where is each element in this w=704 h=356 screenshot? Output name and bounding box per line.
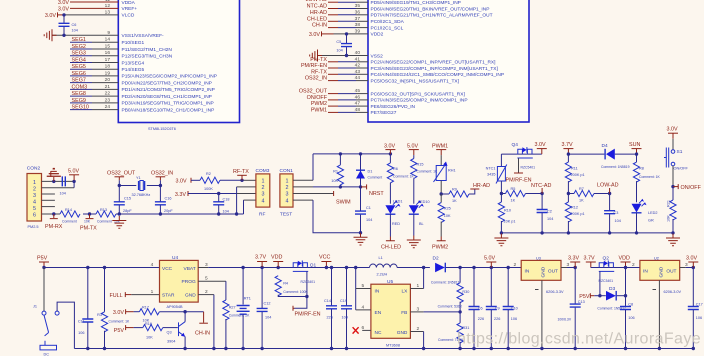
capacitor C6 226 — [469, 268, 485, 351]
wire bottom ground rail — [74, 348, 693, 350]
port PM-RX — [45, 214, 63, 230]
node 3.0V VDD2 — [309, 31, 368, 38]
svg-text:CON2: CON2 — [27, 166, 41, 172]
connector CON2 PM2.5 — [27, 166, 42, 230]
svg-text:2: 2 — [33, 186, 36, 192]
capacitor C3 104 — [604, 194, 621, 233]
svg-text:104: 104 — [60, 192, 66, 196]
wire OS32_IN pin 44 — [305, 76, 368, 82]
resistor R7 1K — [568, 187, 611, 203]
svg-text:PD5/AIN9/SEG19/TM1_CH3/COMP1_I: PD5/AIN9/SEG19/TM1_CH3/COMP1_INP — [371, 0, 461, 6]
svg-text:3.0V: 3.0V — [45, 13, 56, 19]
port PM-TX junction — [80, 212, 97, 231]
wire PM/RF-EN pin 42 — [301, 63, 368, 69]
svg-text:NC: NC — [375, 330, 382, 336]
ground below LED10 — [407, 236, 421, 248]
wire SEG8 — [70, 91, 118, 97]
svg-text:C6: C6 — [478, 306, 483, 310]
port RF-TX — [233, 169, 249, 180]
svg-text:106: 106 — [511, 317, 517, 321]
svg-text:C12: C12 — [264, 302, 271, 306]
wire U5 FB pin3 — [410, 306, 461, 313]
svg-text:R15: R15 — [417, 163, 424, 167]
svg-text:FULL: FULL — [110, 293, 123, 299]
svg-text:20pF: 20pF — [164, 209, 173, 213]
port NRST — [361, 184, 385, 197]
power P5V — [37, 256, 49, 269]
svg-text:RH1: RH1 — [448, 169, 456, 173]
wire U4 VBAT pin3 — [198, 262, 321, 269]
svg-text:PD2/AIN20/SEG8/TM1_CH1/COMP1_I: PD2/AIN20/SEG8/TM1_CH1/COMP1_INP — [122, 94, 212, 100]
svg-text:RZC5401: RZC5401 — [521, 165, 536, 169]
svg-text:GND: GND — [659, 266, 665, 277]
svg-text:PD1/AIN21/COM3/TM5_TRIG/COMP2_: PD1/AIN21/COM3/TM5_TRIG/COMP2_INP — [122, 87, 215, 93]
connector CON1 TEST — [280, 168, 294, 218]
svg-text:R17: R17 — [142, 306, 149, 310]
resistor R16 10K — [143, 322, 178, 340]
wire VCC rail — [308, 266, 370, 269]
svg-text:R2: R2 — [206, 172, 211, 176]
svg-text:AP9054B: AP9054B — [167, 305, 184, 309]
svg-text:200K p1: 200K p1 — [571, 173, 585, 177]
svg-text:4: 4 — [33, 199, 36, 205]
diode D4 1N5819 — [568, 143, 636, 169]
chip U5 MT3608 — [371, 279, 411, 348]
thermistor NTC1 3435 — [486, 154, 507, 195]
wire U3 GND stub — [535, 280, 564, 350]
wire CON1 pin1 up to rail — [293, 154, 313, 180]
svg-text:4: 4 — [262, 198, 265, 204]
svg-text:ON/OFF: ON/OFF — [307, 95, 328, 101]
svg-text:PC2/AIN6/SEG22/COMP1_INP/VREF_: PC2/AIN6/SEG22/COMP1_INP/VREF_OUT[USART1… — [371, 60, 496, 66]
svg-text:3: 3 — [205, 262, 208, 268]
transistor Q1 — [293, 261, 317, 285]
svg-text:3: 3 — [567, 262, 570, 268]
capacitor C1 104 — [355, 187, 372, 233]
svg-text:5: 5 — [33, 206, 36, 212]
svg-text:NTC-AD: NTC-AD — [531, 183, 551, 189]
svg-text:RF: RF — [259, 212, 265, 218]
svg-text:R27: R27 — [229, 306, 236, 310]
svg-text:3.0V: 3.0V — [176, 178, 187, 184]
svg-text:D1: D1 — [368, 170, 373, 174]
LED LED10 BL — [409, 200, 430, 236]
svg-text:Comment: Comment — [97, 220, 112, 224]
svg-text:https://blog.csdn.net/AuroraFa: https://blog.csdn.net/AuroraFaye — [457, 331, 701, 348]
capacitor C5 104 on VDD2 — [336, 34, 352, 56]
capacitor C? 104 on CON2 pin1 — [60, 176, 66, 195]
resistor R13 10K — [96, 208, 121, 224]
svg-text:C1: C1 — [366, 206, 371, 210]
svg-text:Q3: Q3 — [167, 331, 172, 335]
wire COM3 pin2 to ground bus — [237, 187, 256, 214]
port OS32_IN — [151, 171, 173, 181]
svg-text:1K: 1K — [452, 199, 457, 203]
port CH-LED — [381, 237, 401, 251]
svg-text:S1: S1 — [677, 149, 683, 155]
svg-text:PC7/AIN3/SEG25/COMP2_INM/COMP1: PC7/AIN3/SEG25/COMP2_INM/COMP1_INP — [371, 98, 468, 104]
svg-text:VBAT: VBAT — [184, 266, 196, 272]
wire NTC-AD pin 35 — [307, 4, 368, 10]
svg-text:32.768KHz: 32.768KHz — [132, 193, 151, 197]
watermark text — [457, 331, 701, 348]
svg-text:L1: L1 — [379, 256, 383, 260]
wire SEG3 — [70, 51, 118, 57]
svg-text:PD7/AIN7/SEG21/TM1_CH1N/RTC_AL: PD7/AIN7/SEG21/TM1_CH1N/RTC_ALARM/VREF_O… — [371, 13, 493, 19]
battery RT1 — [237, 268, 251, 351]
svg-text:P12/SEG3/TIM1_CH3N: P12/SEG3/TIM1_CH3N — [122, 54, 173, 60]
svg-text:10K: 10K — [667, 215, 671, 222]
wire top rail left — [44, 266, 160, 269]
diode D1 — [356, 154, 382, 187]
wire U5 LX pin1 — [410, 268, 423, 290]
svg-text:LOW-AD: LOW-AD — [597, 183, 619, 189]
svg-text:104: 104 — [72, 29, 78, 33]
svg-text:2: 2 — [514, 262, 517, 268]
svg-text:SWIM: SWIM — [336, 200, 351, 206]
svg-text:104: 104 — [223, 210, 229, 214]
svg-text:106: 106 — [628, 316, 634, 320]
wire SEG1 — [70, 37, 118, 43]
svg-text:226: 226 — [494, 317, 500, 321]
svg-text:STAR: STAR — [162, 293, 175, 299]
power 3.7V battery right — [584, 256, 596, 268]
capacitor C14 226 — [324, 268, 337, 351]
svg-text:STM8L152C6T6: STM8L152C6T6 — [148, 127, 176, 131]
wire CON2 pin6 — [42, 212, 61, 215]
svg-text:Comment: 536K: Comment: 536K — [438, 304, 463, 308]
port FULL — [110, 292, 160, 299]
wire RF-TX pin 43 — [311, 69, 368, 75]
wire CH-LED pin 37 — [307, 16, 368, 22]
power PWM1 port — [432, 143, 448, 155]
svg-text:R4: R4 — [283, 282, 288, 286]
svg-text:3435: 3435 — [487, 173, 495, 177]
svg-text:3.0V: 3.0V — [535, 142, 546, 148]
svg-text:104: 104 — [366, 218, 372, 222]
capacitor C8 106 — [620, 268, 635, 351]
svg-text:5: 5 — [362, 283, 365, 289]
svg-text:CH-LED: CH-LED — [381, 244, 401, 250]
svg-text:R30: R30 — [462, 290, 469, 294]
svg-text:R14: R14 — [65, 208, 72, 212]
chip U2 6206-3.0V — [640, 256, 680, 280]
wire CON2 pin2 — [42, 181, 75, 187]
svg-text:PC3/AIN5/SEG23/COMP1_INP/COMP2: PC3/AIN5/SEG23/COMP1_INP/COMP2_INM[USART… — [371, 66, 498, 72]
resistor R21 10K — [667, 187, 677, 233]
wire 5V rail — [472, 266, 521, 269]
svg-text:OS32_IN: OS32_IN — [305, 76, 327, 82]
node 3.0V to R17 — [113, 309, 139, 316]
capacitor C6 104 — [59, 15, 78, 35]
svg-text:3.7V: 3.7V — [584, 256, 595, 262]
resistor RH1 (boxed) — [434, 155, 456, 196]
svg-text:PC0/I2C1_SDA: PC0/I2C1_SDA — [371, 19, 405, 25]
resistor R12 200K p1 — [565, 194, 584, 233]
svg-text:GND: GND — [541, 266, 547, 277]
ground on osc bus — [112, 216, 126, 228]
wire ON/OFF pin 46 — [307, 95, 368, 101]
ground at VSS1 pin 9 — [44, 29, 118, 41]
svg-text:P13/SEG4: P13/SEG4 — [122, 60, 145, 66]
ground below C1 — [354, 233, 368, 245]
pin names U1 right part — [371, 0, 505, 116]
svg-text:10K: 10K — [146, 336, 153, 340]
power 5.0V over R15 — [407, 143, 419, 155]
svg-text:VDDA: VDDA — [122, 0, 136, 6]
capacitor C12 104 — [257, 268, 272, 351]
svg-text:VDD2: VDD2 — [371, 32, 384, 38]
svg-text:2: 2 — [286, 185, 289, 191]
svg-text:5.0V: 5.0V — [68, 169, 79, 175]
svg-text:5.0V: 5.0V — [484, 256, 495, 262]
svg-text:1: 1 — [33, 180, 36, 186]
svg-text:3.0V: 3.0V — [667, 127, 678, 133]
resistor R15 — [411, 155, 438, 204]
svg-text:106: 106 — [78, 331, 84, 335]
power 3.0V over S1 — [667, 127, 679, 150]
svg-text:NTC1: NTC1 — [486, 167, 496, 171]
svg-text:PD3/AIN19/SEG9/TM1_TRIG/COMP1_: PD3/AIN19/SEG9/TM1_TRIG/COMP1_INP — [122, 101, 214, 107]
svg-text:LED2: LED2 — [648, 211, 658, 215]
svg-text:2.2UH: 2.2UH — [377, 273, 388, 277]
wire SEG10 — [70, 105, 118, 111]
svg-text:PWM2: PWM2 — [432, 244, 448, 250]
svg-text:CON1: CON1 — [280, 168, 294, 174]
svg-text:BL: BL — [419, 222, 424, 226]
svg-text:PD0/AIN22/SEG7/TM3_CH2/COMP2_I: PD0/AIN22/SEG7/TM3_CH2/COMP2_INP — [122, 80, 212, 86]
svg-text:OS32_OUT: OS32_OUT — [107, 171, 136, 177]
wire SEG6 — [70, 71, 118, 77]
svg-text:OUT: OUT — [548, 268, 558, 274]
svg-text:U2: U2 — [654, 256, 659, 260]
port SWIM — [293, 191, 351, 206]
svg-text:C13: C13 — [578, 300, 585, 304]
svg-text:3: 3 — [33, 193, 36, 199]
svg-text:D4: D4 — [602, 143, 608, 149]
port PWM2 — [432, 237, 448, 251]
svg-text:RZC3401: RZC3401 — [301, 280, 316, 284]
svg-text:U3: U3 — [536, 256, 541, 260]
svg-text:RED: RED — [392, 222, 400, 226]
svg-text:DC: DC — [44, 352, 50, 356]
pin names U1 left part — [122, 0, 217, 113]
capacitor C19 104 — [340, 268, 352, 351]
svg-text:104: 104 — [547, 217, 553, 221]
svg-text:R3: R3 — [97, 313, 102, 317]
svg-text:4: 4 — [362, 304, 365, 310]
switch S1 ON/OFF — [664, 148, 689, 189]
svg-text:10K: 10K — [331, 179, 338, 183]
inductor L1 2.2UH — [370, 256, 398, 277]
svg-text:J1: J1 — [33, 305, 37, 309]
power 3.7V sun — [562, 142, 574, 156]
power 3.0V over R6 — [384, 143, 395, 155]
svg-text:200K p1: 200K p1 — [571, 212, 585, 216]
wire L1 to D2 — [397, 266, 430, 269]
svg-text:CH-IN: CH-IN — [195, 331, 210, 337]
wire Q2 gate to P5V net — [599, 271, 601, 295]
svg-text:ON/OFF: ON/OFF — [674, 167, 689, 171]
svg-text:CH-LED: CH-LED — [307, 16, 327, 22]
svg-text:R16: R16 — [145, 322, 152, 326]
svg-text:VLCD: VLCD — [122, 13, 135, 19]
svg-text:Comment: 100K: Comment: 100K — [283, 290, 308, 294]
wire CON2 pin3 stub — [42, 193, 55, 195]
resistor R27 2K — [223, 300, 250, 350]
svg-text:C2: C2 — [547, 210, 552, 214]
svg-text:C16: C16 — [165, 197, 172, 201]
svg-text:VDD: VDD — [619, 256, 630, 262]
svg-text:5.0V: 5.0V — [407, 143, 418, 149]
svg-text:VCC: VCC — [162, 266, 173, 272]
port CH-IN — [195, 312, 210, 337]
svg-text:6: 6 — [33, 212, 36, 218]
svg-text:10K: 10K — [84, 220, 91, 224]
svg-text:3: 3 — [417, 306, 420, 312]
svg-text:104: 104 — [265, 316, 271, 320]
power 3.0V at Q4 — [535, 142, 547, 154]
node 3.0V VDDA wire — [58, 0, 118, 6]
connector COM3 RF — [256, 168, 270, 218]
pin numbers U1 — [105, 0, 111, 110]
crystal Y1 32.768KHz — [119, 176, 160, 197]
svg-text:LED1: LED1 — [393, 200, 403, 204]
wire SEG5 — [70, 64, 118, 70]
svg-text:Comment: 2K: Comment: 2K — [229, 314, 250, 318]
svg-text:C6: C6 — [72, 23, 77, 27]
diode D3 1N5817 — [597, 286, 627, 310]
capacitor C17 106 — [688, 268, 703, 351]
svg-text:3.0V: 3.0V — [686, 256, 697, 262]
svg-text:10K p1: 10K p1 — [504, 220, 516, 224]
transistor Q3 3904 — [167, 312, 187, 350]
wire SEG4 — [70, 58, 118, 64]
wire SEG9 — [70, 98, 118, 104]
svg-text:Comment: 1K: Comment: 1K — [109, 319, 130, 323]
svg-text:PD6/AIN8/SEG20/TM1_BKIN/VREF_O: PD6/AIN8/SEG20/TM1_BKIN/VREF_OUT/COMP1_I… — [371, 6, 490, 12]
svg-text:R1: R1 — [333, 169, 338, 173]
port P5V to D3 — [579, 293, 606, 300]
wire NTC ground rail — [500, 231, 675, 234]
svg-text:PB0/AIN18/SEG10/TM2_CH1/COMP1_: PB0/AIN18/SEG10/TM2_CH1/COMP1_INP — [122, 107, 215, 113]
svg-text:NRST: NRST — [369, 191, 384, 197]
node 3.0V VREF+ wire — [58, 6, 118, 12]
svg-text:PM2.5: PM2.5 — [28, 225, 39, 229]
wire PWM1 pin 48 — [311, 107, 368, 113]
resistor R17 10K — [139, 306, 203, 323]
resistor R1 10K — [331, 154, 343, 187]
svg-text:C5: C5 — [336, 40, 341, 44]
LED LED1 RED — [385, 200, 402, 237]
svg-text:VSS1/VSSA/VREF-: VSS1/VSSA/VREF- — [122, 33, 165, 39]
capacitor C11 106 — [78, 268, 93, 351]
svg-text:Comment: 1K: Comment: 1K — [393, 175, 414, 179]
svg-text:P11/SEG2/TIM1_CH2N: P11/SEG2/TIM1_CH2N — [122, 47, 173, 53]
svg-text:Y1: Y1 — [136, 176, 141, 180]
svg-text:VREF+: VREF+ — [122, 6, 138, 12]
power 3.7V — [255, 255, 267, 267]
svg-text:C11: C11 — [78, 320, 85, 324]
svg-text:C18: C18 — [223, 198, 230, 202]
wire PM-TX pin 41 — [310, 57, 368, 63]
svg-text:3.0V: 3.0V — [113, 310, 124, 316]
capacitor C15 28pF — [114, 180, 133, 214]
svg-text:HR-AD: HR-AD — [473, 183, 490, 189]
svg-text:IN: IN — [525, 268, 530, 274]
power VDD right — [619, 256, 631, 269]
svg-text:R11: R11 — [571, 167, 578, 171]
wire R2 to COM3 pin1 — [220, 179, 256, 182]
svg-text:MT3608: MT3608 — [386, 344, 400, 348]
svg-text:Comment: 1N5817: Comment: 1N5817 — [431, 281, 460, 285]
svg-text:GND: GND — [397, 330, 408, 336]
svg-text:104: 104 — [615, 219, 621, 223]
svg-text:C15: C15 — [124, 197, 131, 201]
capacitor C9 226 — [486, 268, 501, 351]
resistor R8 1K — [633, 154, 660, 202]
svg-text:R31: R31 — [462, 326, 469, 330]
svg-text:Comment: 1K: Comment: 1K — [639, 175, 660, 179]
svg-text:Q4: Q4 — [512, 142, 519, 148]
svg-text:3.0V: 3.0V — [58, 0, 69, 6]
svg-text:HR-AD: HR-AD — [310, 10, 327, 16]
ground at VSS2 pin 40 — [310, 50, 368, 62]
svg-text:28pF: 28pF — [123, 209, 132, 213]
svg-text:FB: FB — [401, 310, 407, 316]
svg-text:P5V: P5V — [579, 294, 590, 300]
svg-text:PROG: PROG — [182, 279, 196, 285]
svg-text:D2: D2 — [433, 256, 439, 262]
op-amp U1 MCU box STM8L152C6T6 part A — [118, 0, 239, 131]
svg-text:C3: C3 — [614, 211, 619, 215]
svg-text:R12: R12 — [571, 206, 578, 210]
svg-text:RT1: RT1 — [244, 297, 251, 301]
LED LED2 GR — [632, 199, 658, 233]
svg-text:R8: R8 — [639, 166, 644, 170]
svg-text:100/6.3V: 100/6.3V — [558, 318, 572, 322]
svg-text:PE7/SEG27: PE7/SEG27 — [371, 110, 397, 116]
diode D2 1N5817 — [431, 256, 474, 285]
svg-text:3.3V: 3.3V — [175, 192, 186, 198]
node 3.0V to R2 — [176, 178, 201, 185]
wire OS32_OUT pin 45 — [299, 89, 368, 95]
wire SEG7 — [70, 78, 118, 84]
resistor R2 100K — [200, 172, 220, 191]
DC jack J1 — [33, 268, 74, 356]
node 3.0V VLCD wire — [45, 12, 118, 19]
svg-text:PC6/OSC32_OUT[SPI1_SCK/USART1_: PC6/OSC32_OUT[SPI1_SCK/USART1_RX] — [371, 91, 465, 97]
svg-text:Comment: 1K: Comment: 1K — [417, 170, 438, 174]
resistor R11 200K p1 — [565, 154, 584, 195]
svg-text:P5V: P5V — [37, 256, 48, 262]
transistor Q2 — [591, 256, 626, 283]
wire SEG2 — [70, 44, 118, 50]
svg-text:PM/RF-EN: PM/RF-EN — [301, 63, 327, 69]
svg-text:RZC3401: RZC3401 — [599, 279, 614, 283]
svg-text:3.3V: 3.3V — [568, 256, 579, 262]
svg-text:GND: GND — [185, 293, 196, 299]
resistor R25 10K — [438, 194, 451, 237]
wire CH-IN pin 38 — [312, 23, 368, 29]
wire U4 GND pin2 — [198, 289, 215, 350]
wire CON1 pin4 to ground — [293, 200, 362, 234]
svg-text:C8: C8 — [628, 302, 633, 306]
svg-text:VCC: VCC — [319, 255, 330, 261]
svg-text:PM-RX: PM-RX — [45, 224, 63, 230]
resistor R4 100K — [275, 276, 308, 298]
resistor R9 1K — [441, 187, 469, 203]
